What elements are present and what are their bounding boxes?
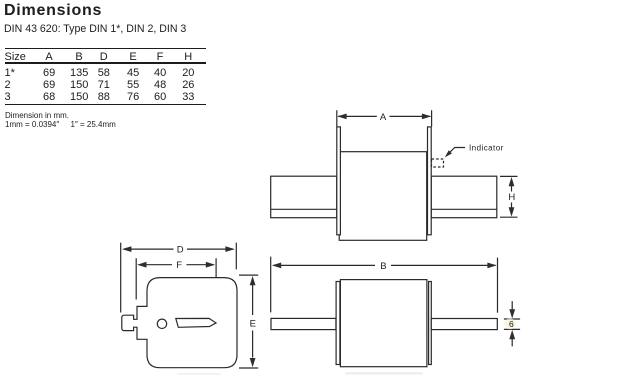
- row 2: [5, 80, 11, 91]
- table header row: [5, 52, 26, 63]
- indicator dashed box: [432, 159, 444, 167]
- right blade inner edge: [431, 208, 497, 210]
- dim A extension lines: [337, 110, 432, 126]
- dim B line: [274, 264, 496, 266]
- row 1: [5, 68, 15, 79]
- dim B arrows: [272, 263, 281, 269]
- table top rule: [5, 48, 206, 49]
- dim D extension lines: [121, 243, 237, 313]
- right end plate: [429, 282, 432, 365]
- table bottom rule: [5, 104, 206, 105]
- dim H line: [511, 186, 513, 208]
- dim H arrows: [509, 177, 515, 186]
- arrowheads: [122, 114, 515, 368]
- svg-text:B: B: [380, 261, 386, 272]
- dim 6 arrow stems: [511, 301, 513, 346]
- footnotes: [5, 112, 69, 120]
- faint scan smudge under end view: [177, 373, 221, 375]
- dim 6 arrows: [509, 309, 515, 318]
- svg-text:Indicator: Indicator: [469, 143, 504, 152]
- right end plate: [428, 127, 432, 235]
- svg-text:H: H: [508, 192, 515, 203]
- header underline: [5, 62, 206, 64]
- hole circle: [157, 319, 166, 328]
- dim A line: [338, 115, 430, 117]
- svg-text:D: D: [177, 245, 184, 256]
- dim D arrows: [122, 246, 131, 252]
- dim F arrows: [137, 262, 146, 268]
- svg-text:F: F: [176, 260, 182, 271]
- svg-text:6: 6: [509, 319, 514, 329]
- row 3: [5, 92, 11, 103]
- left blade inner edge: [271, 208, 337, 210]
- left end plate: [336, 282, 340, 365]
- left end plate: [337, 127, 341, 235]
- left blade: [271, 318, 336, 329]
- dim H extension ticks: [500, 176, 518, 217]
- fuse body outline with blade tab: [122, 278, 237, 368]
- right blade: [431, 176, 497, 218]
- svg-text:E: E: [250, 319, 256, 330]
- subtitle: [4, 24, 186, 35]
- indicator leader arrowhead: [445, 150, 452, 157]
- indicator leader line: [446, 148, 465, 157]
- dim E line: [252, 285, 254, 358]
- body (main rect): [339, 152, 427, 241]
- dimension labels: [176, 112, 515, 330]
- dim F extension lines: [136, 258, 216, 315]
- dim F line: [139, 264, 214, 266]
- svg-text:A: A: [380, 112, 387, 123]
- pointed slot: [176, 318, 216, 327]
- right blade: [431, 319, 497, 330]
- left blade: [271, 176, 337, 218]
- dim B extension lines: [271, 257, 498, 313]
- yellow smudge behind 6: [505, 318, 516, 329]
- body: [340, 280, 427, 367]
- dim D line: [124, 248, 234, 250]
- dim E extension ticks: [239, 275, 258, 368]
- faint scan smudge under side view: [345, 372, 423, 374]
- dim E arrows: [250, 276, 256, 285]
- dim A arrows: [337, 114, 346, 120]
- heading: [4, 3, 102, 19]
- dim 6 ticks: [504, 319, 520, 329]
